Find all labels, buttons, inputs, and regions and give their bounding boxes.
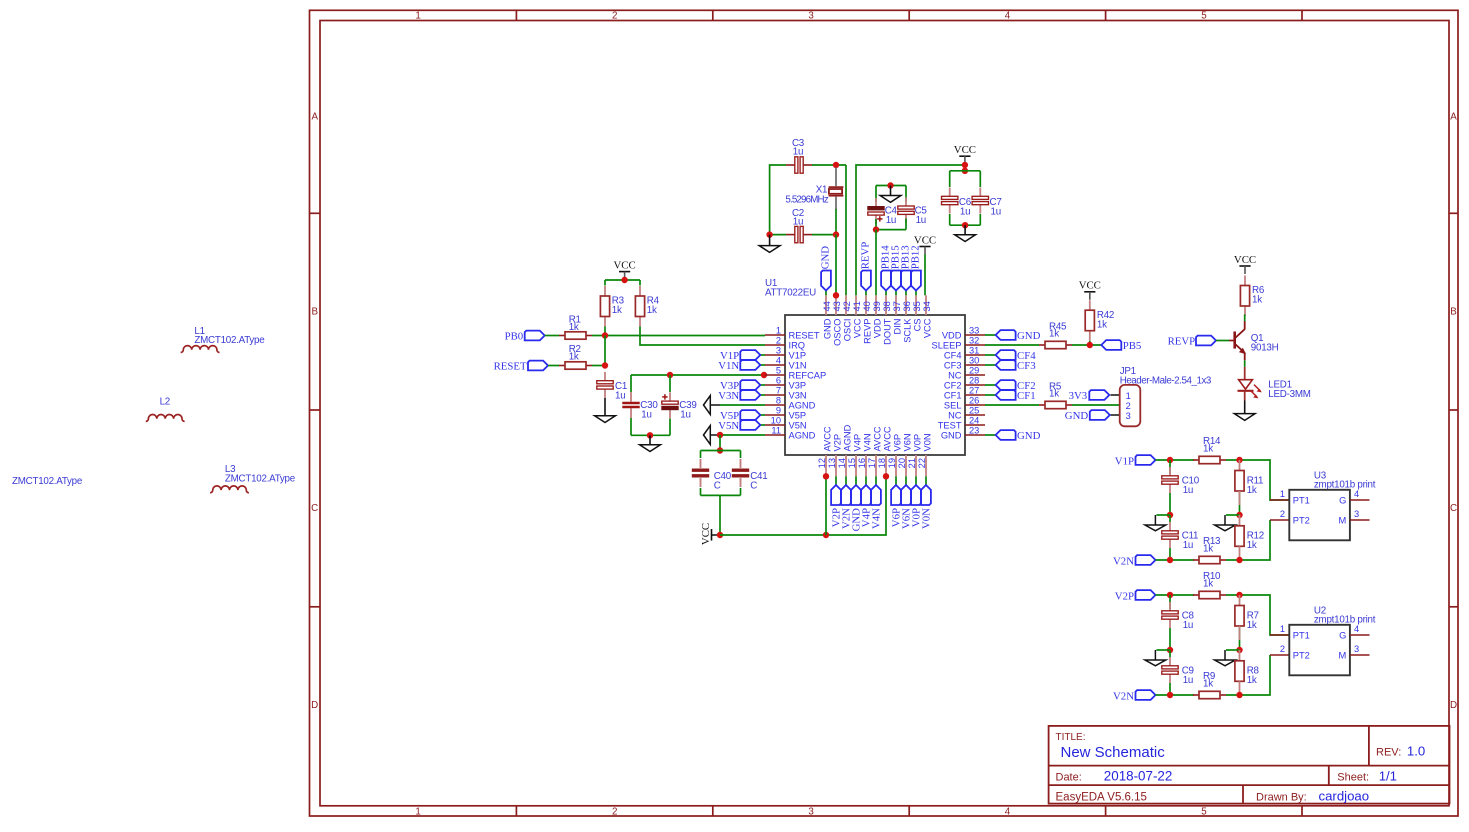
junction C2 right [833,231,839,237]
U2 pin 3 [1350,654,1370,656]
svg-text:V6N: V6N [902,433,912,451]
svg-text:V3P: V3P [789,380,807,390]
svg-text:V0P: V0P [912,434,922,452]
svg-text:1k: 1k [1203,443,1213,454]
svg-text:OSCO: OSCO [832,319,842,346]
svg-text:4: 4 [776,355,781,365]
U1 pin 26 SEL [965,404,985,406]
svg-text:30: 30 [969,355,979,365]
junction bottom left [1167,692,1173,698]
svg-text:SEL: SEL [944,400,962,410]
svg-text:5: 5 [1201,11,1207,22]
wire C30 left leg [630,375,632,392]
svg-text:LED-3MM: LED-3MM [1268,389,1310,400]
svg-text:1u: 1u [680,409,690,420]
resistor R3 [604,286,606,296]
svg-text:ZMCT102.AType: ZMCT102.AType [194,335,265,346]
svg-text:A: A [1450,112,1457,123]
U1 pin 34 VCC [925,295,927,315]
svg-text:V5P: V5P [789,410,807,420]
svg-text:V2P: V2P [1115,590,1134,602]
svg-text:V2P: V2P [832,434,842,452]
svg-text:Drawn By:: Drawn By: [1256,791,1307,803]
port V1N [760,364,765,366]
port GND (top) [825,291,827,296]
U1 pin 40 REVP [865,295,867,315]
svg-text:Date:: Date: [1056,772,1082,784]
port V1P [760,354,765,356]
svg-text:PT2: PT2 [1293,651,1310,661]
wire RESET to R2 [548,365,559,367]
svg-text:9: 9 [776,405,781,415]
U1 pin 33 VDD [965,334,985,336]
junction bottom left [1167,557,1173,563]
svg-text:7: 7 [776,385,781,395]
ground below LED1 [1244,391,1246,401]
svg-text:GND: GND [822,318,832,339]
svg-text:1u: 1u [960,206,970,217]
svg-text:EasyEDA V5.6.15: EasyEDA V5.6.15 [1056,791,1147,803]
svg-text:VCC: VCC [1079,280,1101,292]
U1 pin 30 CF3 [965,364,985,366]
wire top row right [1226,460,1289,500]
wire OSCI pin42 up [845,165,847,295]
svg-text:1k: 1k [1247,540,1257,551]
svg-text:22: 22 [917,458,927,468]
svg-text:36: 36 [902,301,912,311]
wire C30/C39 bottom bus [631,434,670,436]
svg-text:1.0: 1.0 [1407,743,1425,758]
wire R4 bottom to IRQ pin2 [640,327,765,346]
svg-text:CS: CS [912,319,922,332]
wire top row [1156,594,1195,596]
U1 pin 29 NC [965,374,985,376]
svg-text:C: C [750,481,757,492]
wire R3 bottom to PB0 net [604,327,606,336]
U1 pin 18 AVCC [885,455,887,476]
svg-text:RESET: RESET [789,330,820,340]
svg-text:AGND: AGND [789,400,816,410]
svg-text:18: 18 [877,458,887,468]
capacitor C8 [1169,595,1171,609]
wire R5 to JP1 pin2 [1072,404,1120,406]
ground below C4C5 top [890,186,892,196]
wire REVP to Q1 base [1216,340,1229,342]
wire R42 bottom [1089,341,1091,345]
svg-text:SLEEP: SLEEP [932,340,962,350]
svg-text:cardjoao: cardjoao [1319,788,1370,803]
svg-text:9013H: 9013H [1251,343,1279,354]
wire SLEEP to R45 [985,344,1039,346]
svg-text:4: 4 [1354,489,1359,499]
svg-text:3: 3 [808,11,814,22]
svg-text:1k: 1k [1203,543,1213,554]
svg-text:REVP: REVP [1168,336,1196,348]
svg-text:CF2: CF2 [944,380,962,390]
U1 pin 14 AGND [845,455,847,476]
svg-text:PT1: PT1 [1293,631,1310,641]
port REVP (top) [865,291,867,296]
svg-text:REFCAP: REFCAP [789,370,827,380]
svg-text:B: B [1450,307,1457,318]
svg-text:3: 3 [1126,411,1131,421]
junction pin11 [717,432,723,438]
svg-text:IRQ: IRQ [789,340,806,350]
wire C30 bottom [630,418,632,435]
svg-text:GND: GND [820,246,832,270]
port PB13 (top) [905,291,907,296]
port PB12 (top) [915,291,917,296]
wire pin8 AGND arrow [704,396,711,415]
junction bottom right [1236,557,1242,563]
svg-text:CF1: CF1 [944,390,962,400]
svg-text:REVP: REVP [860,242,872,270]
U1 pin 21 V0P [915,455,917,476]
U1 pin 1 RESET [765,334,785,336]
svg-text:1k: 1k [612,305,622,316]
wire VCC rail [720,476,886,535]
U1 pin 23 GND [965,434,985,436]
svg-text:28: 28 [969,375,979,385]
svg-text:REV:: REV: [1376,746,1401,758]
port V4N (bottom) [875,476,877,485]
wire R2 to C1 node [592,365,605,367]
resistor R11 [1239,460,1241,471]
ground below C6C7 [964,225,966,235]
port V0P (bottom) [915,476,917,485]
wire C3 right to crystal node [812,164,846,166]
svg-text:1: 1 [415,806,420,817]
svg-text:VCC: VCC [914,234,936,246]
svg-text:CF3: CF3 [944,360,962,370]
junction R42/PB5 [1087,342,1093,348]
U1 pin 42 OSCI [845,295,847,315]
svg-text:3V3: 3V3 [1069,390,1088,402]
port CF2 [985,384,996,386]
port V3N [760,394,765,396]
junction C6C7 top [962,168,968,174]
ground mid left [1156,514,1170,516]
svg-text:VCC: VCC [1234,254,1256,266]
svg-text:1/1: 1/1 [1379,769,1397,784]
U1 pin 15 V4P [855,455,857,476]
svg-text:1k: 1k [1049,328,1059,339]
svg-text:ATT7022EU: ATT7022EU [765,287,816,298]
wire VCC rail top [856,165,965,295]
U2 pin 4 [1350,634,1370,636]
svg-text:1: 1 [1280,624,1285,634]
power VCC (R6) [1239,265,1250,267]
U1 pin 32 SLEEP [965,344,985,346]
IC U1 ATT7022EU body [785,315,965,455]
wire C3 left + down to ground [770,165,786,235]
svg-text:37: 37 [892,301,902,311]
svg-text:GND: GND [1017,330,1041,342]
resistor R12 [1239,515,1241,526]
port GND (pin23) [985,434,996,436]
svg-text:AVCC: AVCC [872,426,882,451]
wire down to C40C41 [719,435,721,451]
svg-text:1: 1 [776,325,781,335]
svg-text:AGND: AGND [789,430,816,440]
svg-text:B: B [311,307,318,318]
svg-text:1k: 1k [1247,675,1257,686]
svg-text:TITLE:: TITLE: [1056,732,1086,743]
svg-text:VDD: VDD [872,318,882,338]
capacitor C4 polarized [875,186,877,203]
wire bottom row [1156,694,1195,696]
wire down to pin39 VDD [875,230,877,296]
U1 pin 27 CF1 [965,394,985,396]
svg-text:1u: 1u [1183,675,1193,686]
svg-text:1k: 1k [569,322,579,333]
junction VCC rail left [717,532,723,538]
junction top left [1167,457,1173,463]
junction mid left [1167,647,1173,653]
U1 pin 17 AVCC [875,455,877,476]
svg-text:OSCI: OSCI [842,319,852,342]
svg-text:1k: 1k [1247,485,1257,496]
U1 pin 36 SCLK [905,295,907,315]
svg-text:Sheet:: Sheet: [1337,772,1369,784]
svg-text:ZMCT102.AType: ZMCT102.AType [225,474,296,485]
svg-text:DIN: DIN [892,319,902,335]
svg-text:V1N: V1N [789,360,807,370]
svg-text:VCC: VCC [852,318,862,338]
svg-text:1u: 1u [1183,485,1193,496]
svg-text:24: 24 [969,415,979,425]
junction C4C5 top [887,182,893,188]
resistor R13 [1193,559,1199,561]
junction bottom bus [647,432,653,438]
port CF1 [985,394,996,396]
svg-text:1k: 1k [1252,295,1262,306]
resistor R42 [1089,300,1091,310]
ground below C30/C39 [649,435,651,444]
junction top right [1236,592,1242,598]
U1 pin 44 GND [825,295,827,315]
svg-text:41: 41 [852,301,862,311]
junction C6C7 bottom [962,222,968,228]
svg-text:1u: 1u [615,390,625,401]
svg-text:VCC: VCC [613,259,635,271]
svg-text:39: 39 [872,301,882,311]
svg-text:V4N: V4N [862,433,872,451]
capacitor C30 [630,392,632,402]
wire cap to mid junction [1169,628,1171,650]
svg-text:32: 32 [969,335,979,345]
svg-text:3: 3 [1354,644,1359,654]
sheet border frame [310,10,1459,816]
svg-text:1k: 1k [1097,319,1107,330]
svg-text:2: 2 [612,11,617,22]
wire C40/C41 top bus [701,450,741,452]
U1 pin 41 VCC [855,295,857,315]
svg-text:3: 3 [1354,509,1359,519]
junction mid left [1167,512,1173,518]
resistor R5 [1039,404,1045,406]
svg-text:1k: 1k [647,305,657,316]
U3 pin 4 [1350,499,1370,501]
wire C6/C7 top [950,170,981,172]
crystal X1 [835,168,837,187]
wire R45 to PB5 [1072,344,1101,346]
svg-text:PB5: PB5 [1123,340,1142,352]
svg-text:8: 8 [776,395,781,405]
svg-text:40: 40 [862,301,872,311]
svg-text:AGND: AGND [842,424,852,451]
svg-text:V2N: V2N [1113,555,1134,567]
U1 pin 3 V1P [765,354,785,356]
power VCC (pin34) [919,246,930,248]
resistor R6 [1244,276,1246,286]
junction pin43 [833,292,839,298]
U1 pin 28 CF2 [965,384,985,386]
svg-text:43: 43 [832,301,842,311]
U1 pin 35 CS [915,295,917,315]
svg-text:21: 21 [907,458,917,468]
wire bottom row [1156,559,1195,561]
LED LED1 LED-3MM [1244,367,1246,380]
U1 pin 10 V5N [765,424,785,426]
svg-text:V5N: V5N [718,420,739,432]
wire C6/C7 bottom [949,214,951,225]
svg-text:1u: 1u [1183,540,1193,551]
U1 pin 37 DIN [895,295,897,315]
svg-text:DOUT: DOUT [882,318,892,345]
svg-text:V6P: V6P [892,434,902,452]
U1 pin 38 DOUT [885,295,887,315]
U1 pin 8 AGND [765,404,785,406]
ground below C2 left [769,235,771,246]
U1 pin 13 V2P [835,455,837,476]
svg-text:VCC: VCC [954,144,976,156]
port V6N (bottom) [905,476,907,485]
junction pin18 [883,473,889,479]
resistor R45 [1039,344,1045,346]
svg-text:1u: 1u [641,409,651,420]
svg-text:G: G [1339,496,1346,506]
junction mid right [1236,512,1242,518]
U1 pin 16 V4N [865,455,867,476]
port V5N [760,424,765,426]
svg-text:V2N: V2N [1113,690,1134,702]
capacitor C41 [740,451,742,459]
svg-text:AVCC: AVCC [822,426,832,451]
capacitor C5 [905,186,907,203]
port V0N (bottom) [925,476,927,485]
U1 pin 6 V3P [765,384,785,386]
wire R3R1 down to R2 node [604,336,606,366]
junction C39 top [667,372,673,378]
svg-text:C: C [1450,503,1457,514]
svg-text:AVCC: AVCC [882,426,892,451]
ground mid right [1226,649,1240,651]
resistor R8 [1239,650,1241,661]
power VCC (R42) [1084,291,1095,293]
svg-text:A: A [311,112,318,123]
svg-text:V1P: V1P [789,350,807,360]
svg-text:VCC: VCC [922,318,932,338]
svg-text:6: 6 [776,375,781,385]
wire center drop to VCC rail [719,495,721,535]
port PB5 [1101,340,1121,350]
svg-text:NC: NC [948,370,962,380]
junction bottom right [1236,692,1242,698]
port PB14 (top) [885,291,887,296]
svg-text:29: 29 [969,365,979,375]
svg-text:26: 26 [969,395,979,405]
svg-text:1k: 1k [1203,678,1213,689]
port CF3 [985,364,996,366]
svg-text:D: D [311,700,318,711]
svg-text:1k: 1k [1049,388,1059,399]
wire bottom row right [1226,520,1270,560]
svg-text:PB0: PB0 [505,331,524,343]
wire C2 row [770,234,786,236]
U1 pin 39 VDD [875,295,877,315]
U1 pin 31 CF4 [965,354,985,356]
wire cap to bottom row [1169,548,1171,560]
resistor R1 [559,335,565,337]
svg-text:2: 2 [1280,644,1285,654]
junction top left [1167,592,1173,598]
U3 pin 3 [1350,519,1370,521]
port V3P [760,384,765,386]
svg-text:2: 2 [1280,509,1285,519]
wire C4/C5 bottom [875,219,877,230]
resistor R2 [559,365,565,367]
junction mid right [1236,647,1242,653]
svg-text:42: 42 [842,301,852,311]
svg-text:38: 38 [882,301,892,311]
svg-text:12: 12 [817,458,827,468]
U1 pin 4 V1N [765,364,785,366]
U1 pin 25 NC [965,414,985,416]
svg-text:4: 4 [1005,806,1011,817]
wire pin12 drop [825,476,827,535]
svg-text:19: 19 [887,458,897,468]
capacitor C39 polarized [662,396,667,398]
svg-text:GND: GND [1017,430,1041,442]
svg-text:17: 17 [867,458,877,468]
svg-text:TEST: TEST [938,420,962,430]
wire SEL to R5 [985,404,1039,406]
wire PB0 to R1 [545,335,559,337]
capacitor C40 [700,451,702,459]
svg-text:V3N: V3N [789,390,807,400]
svg-text:V4P: V4P [852,434,862,452]
svg-text:V0N: V0N [922,433,932,451]
wire C40/C41 bottom bus [700,488,702,495]
svg-text:34: 34 [922,301,932,311]
resistor R9 [1193,694,1199,696]
U1 pin 9 V5P [765,414,785,416]
junction C2 left [766,231,772,237]
svg-text:5: 5 [1201,806,1207,817]
port PB15 (top) [895,291,897,296]
junction top right [1236,457,1242,463]
svg-text:NC: NC [948,410,962,420]
svg-text:GND: GND [941,430,962,440]
U1 pin 20 V6N [905,455,907,476]
svg-text:V1N: V1N [718,360,739,372]
resistor R4 [639,286,641,296]
capacitor C1 [604,372,606,381]
junction R2/C1 [602,362,608,368]
U1 pin 11 AGND [765,434,785,436]
port V4P (bottom) [865,476,867,485]
